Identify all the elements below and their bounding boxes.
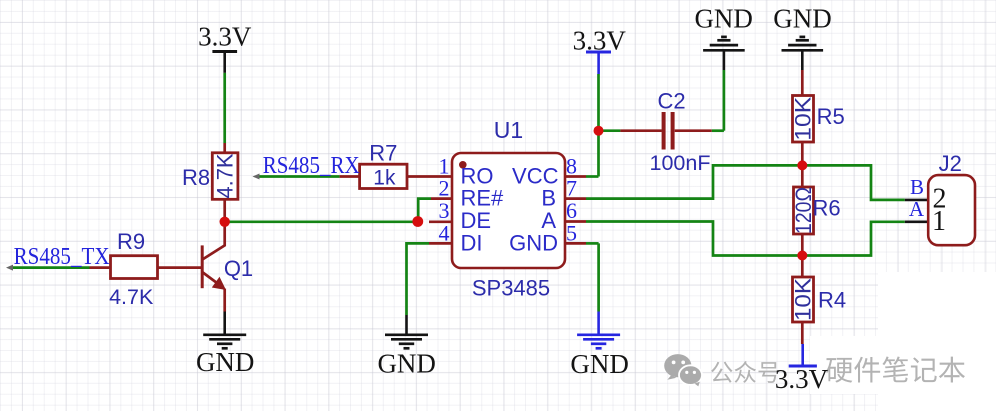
svg-text:RS485_RX: RS485_RX <box>263 153 360 179</box>
svg-text:R7: R7 <box>369 141 397 166</box>
svg-text:3: 3 <box>439 198 450 223</box>
svg-text:2: 2 <box>439 176 450 201</box>
svg-text:R5: R5 <box>817 104 845 129</box>
svg-text:4.7K: 4.7K <box>109 285 154 309</box>
svg-text:B: B <box>541 186 556 211</box>
svg-text:3.3V: 3.3V <box>198 22 252 52</box>
svg-text:GND: GND <box>570 349 629 379</box>
svg-text:A: A <box>909 197 925 221</box>
svg-text:GND: GND <box>773 4 832 34</box>
svg-text:U1: U1 <box>494 117 523 143</box>
svg-text:R8: R8 <box>182 165 210 190</box>
svg-text:RE#: RE# <box>461 186 505 211</box>
svg-text:4.7K: 4.7K <box>213 153 238 198</box>
svg-text:B: B <box>910 175 924 199</box>
svg-text:100nF: 100nF <box>650 151 711 175</box>
svg-text:GND: GND <box>377 349 436 379</box>
svg-text:RS485_TX: RS485_TX <box>14 244 110 270</box>
svg-text:4: 4 <box>439 221 450 246</box>
svg-text:6: 6 <box>566 198 577 223</box>
svg-text:GND: GND <box>694 4 753 34</box>
svg-text:GND: GND <box>509 231 558 256</box>
svg-text:3.3V: 3.3V <box>775 364 829 394</box>
svg-text:SP3485: SP3485 <box>472 276 550 301</box>
svg-text:1: 1 <box>932 206 946 237</box>
svg-text:7: 7 <box>566 176 577 201</box>
svg-text:A: A <box>541 208 556 233</box>
svg-text:5: 5 <box>566 221 577 246</box>
svg-text:GND: GND <box>196 347 255 377</box>
svg-text:Q1: Q1 <box>224 256 253 281</box>
svg-text:DI: DI <box>461 231 483 256</box>
svg-text:R4: R4 <box>818 288 846 313</box>
svg-text:C2: C2 <box>657 89 685 114</box>
svg-text:10K: 10K <box>791 278 816 321</box>
svg-text:J2: J2 <box>939 151 962 176</box>
svg-text:R6: R6 <box>812 196 840 221</box>
svg-text:120Ω: 120Ω <box>791 187 816 234</box>
svg-text:R9: R9 <box>117 229 145 254</box>
svg-text:10K: 10K <box>791 96 816 140</box>
svg-text:3.3V: 3.3V <box>573 26 627 56</box>
svg-text:DE: DE <box>461 208 492 233</box>
svg-text:1k: 1k <box>373 167 396 190</box>
